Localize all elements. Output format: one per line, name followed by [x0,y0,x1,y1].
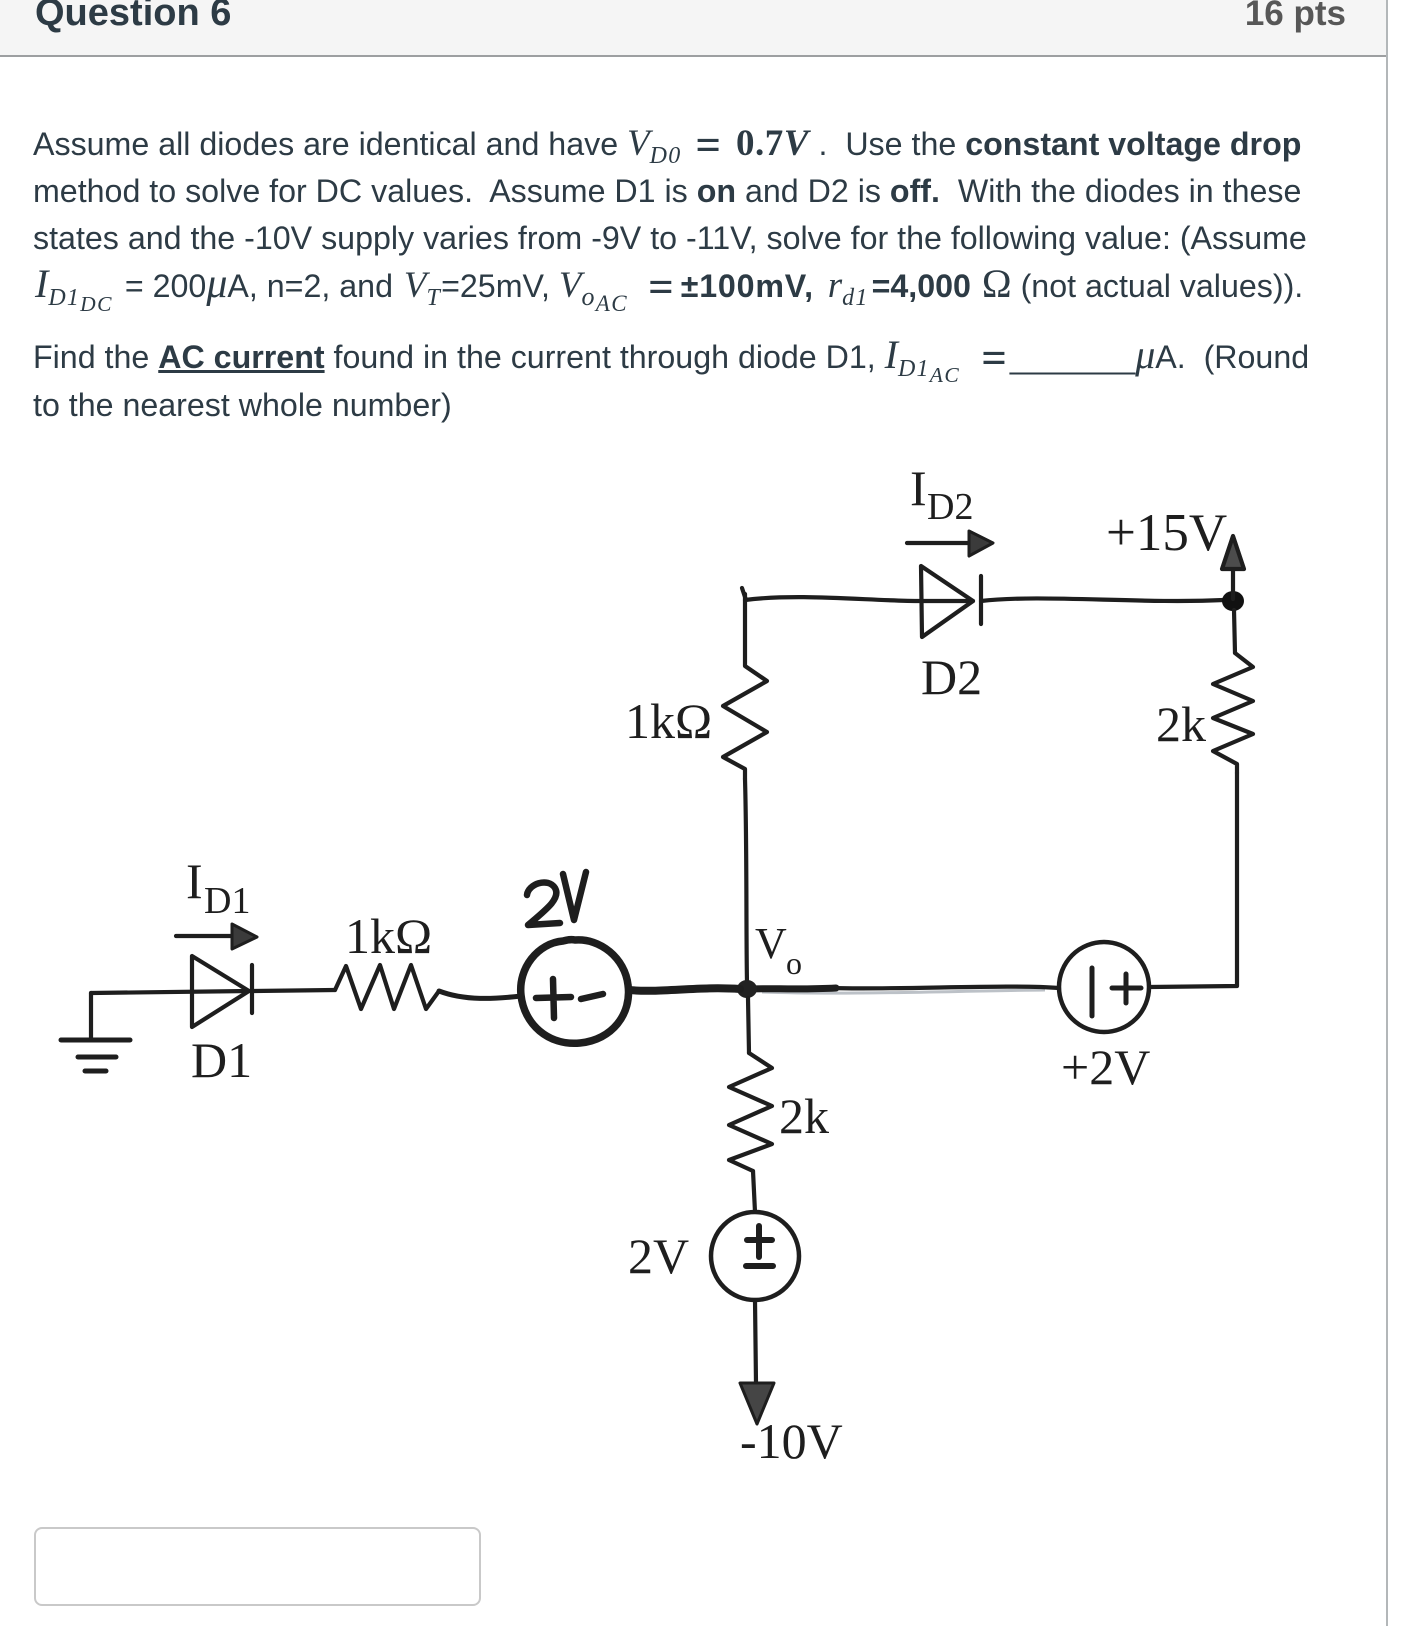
svg-text:D1: D1 [191,1032,252,1088]
ground [89,993,93,1039]
svg-text:+2V: +2V [1061,1039,1150,1095]
source +2V circle [1059,942,1149,1032]
wire D1 to 1k resistor [252,990,335,991]
svg-text:2k: 2k [1156,696,1206,752]
svg-text:-10V: -10V [740,1413,843,1469]
wire ground to D1 [91,991,249,993]
arrow I_D2 [907,541,969,545]
wire top-left tick [742,588,746,600]
resistor 1kΩ horizontal [335,965,439,1009]
svg-text:D1: D1 [204,880,250,922]
wire right branch down and to +2V source [1150,773,1237,987]
diode D1 [192,956,249,1027]
node dot +15V junction [1222,591,1244,611]
wire 2k to 2V source [753,1171,755,1212]
wire left branch down to node Vo [745,779,747,983]
svg-text:I: I [910,460,927,516]
label 2V handwritten [527,882,560,925]
source 2V hand-drawn circle [521,940,629,1044]
svg-text:o: o [786,945,802,981]
wire 1k to 2V handcircle [439,991,521,998]
-10V arrowhead [740,1383,774,1424]
svg-text:D2: D2 [927,486,973,528]
svg-text:I: I [186,853,203,909]
svg-text:D2: D2 [921,649,982,705]
circuit svg placeholder [0,440,1300,1480]
wire +2V to node Vo [830,987,1059,989]
source 2V bottom circle [711,1212,799,1300]
arrow I_D1 [176,934,233,938]
diode D2 [921,566,973,637]
answer input box [34,1527,481,1606]
node Vo dot [737,980,757,998]
svg-text:+15V: +15V [1106,504,1227,562]
paragraph text lines [33,124,1301,164]
resistor 2k right branch [1213,653,1253,773]
wire scan ghost right of node Vo [762,990,1045,993]
svg-text:V: V [755,919,787,968]
- sign inside 2V [581,994,603,999]
resistor 2k lower branch [729,1053,772,1171]
wire 2V source to -10V arrow [755,1300,756,1384]
+ sign inside 2V [536,979,571,1018]
wire node to 2k right [1234,610,1235,653]
wire D2 cathode to +15V node [981,598,1224,601]
wire 2V circle to node Vo thick [629,988,740,991]
+15V arrow [1231,567,1235,599]
svg-text:1kΩ: 1kΩ [625,693,712,749]
wire node Vo down to 2k [748,998,749,1053]
svg-text:1kΩ: 1kΩ [345,908,432,964]
svg-text:2V: 2V [628,1228,689,1284]
resistor 1kΩ left vertical branch [723,594,767,779]
svg-text:2k: 2k [779,1088,829,1144]
wire top horizontal to D2 [745,597,973,601]
